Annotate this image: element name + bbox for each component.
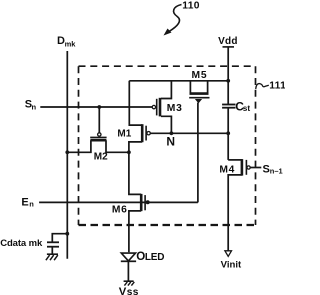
svg-text:110: 110 (182, 0, 200, 11)
svg-text:n: n (32, 102, 37, 111)
svg-text:N: N (166, 135, 175, 149)
svg-text:V: V (119, 286, 127, 295)
svg-text:n–1: n–1 (270, 166, 283, 175)
svg-text:LED: LED (145, 252, 164, 263)
svg-text:Vdd: Vdd (218, 36, 238, 47)
svg-text:M6: M6 (112, 205, 128, 216)
svg-text:mk: mk (65, 39, 77, 48)
svg-text:M4: M4 (219, 164, 235, 175)
svg-text:M5: M5 (192, 70, 208, 81)
svg-text:M3: M3 (167, 103, 183, 114)
svg-text:O: O (136, 250, 145, 263)
svg-text:M2: M2 (94, 152, 108, 163)
svg-text:n: n (29, 200, 34, 209)
svg-text:S: S (263, 164, 270, 176)
svg-text:E: E (21, 196, 28, 208)
svg-text:Vinit: Vinit (221, 259, 242, 270)
svg-text:Cdata mk: Cdata mk (0, 238, 43, 249)
svg-text:st: st (243, 103, 251, 113)
svg-text:ss: ss (127, 287, 139, 295)
svg-text:M1: M1 (117, 128, 131, 139)
svg-text:111: 111 (269, 80, 285, 91)
